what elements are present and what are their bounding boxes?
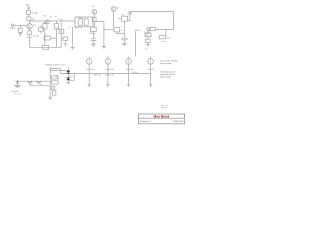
wire: [134, 32, 136, 57]
resistor R9: [91, 27, 97, 31]
wire: [92, 31, 94, 38]
wire: [128, 64, 130, 85]
switch pole B: [84, 19, 88, 25]
svg-text:SW1: SW1: [79, 17, 83, 20]
wire: [103, 21, 105, 29]
svg-text:C2 10u: C2 10u: [33, 34, 39, 37]
wire: [93, 21, 95, 27]
wire Q1 collector: [29, 21, 31, 24]
svg-text:LEVEL: LEVEL: [132, 71, 138, 74]
svg-text:Mini Block: Mini Block: [154, 115, 170, 119]
ground: [14, 85, 21, 87]
transistor Q2a: [45, 20, 49, 24]
wire top rail: [29, 20, 75, 22]
wire: [44, 21, 46, 24]
diode D1: [66, 71, 70, 74]
potentiometer VR1: [86, 59, 92, 65]
title block divider: [138, 117, 184, 119]
power terminal: [28, 7, 30, 9]
capacitor C7: [53, 91, 56, 95]
svg-text:10K: 10K: [167, 37, 171, 40]
wire: [19, 25, 21, 28]
svg-text:GAIN 1M: GAIN 1M: [126, 68, 134, 71]
resistor R6: [54, 24, 58, 29]
wire: [29, 35, 31, 48]
wire: [118, 18, 121, 20]
wire: [92, 40, 94, 44]
svg-text:1K: 1K: [121, 29, 124, 32]
wire input: [14, 24, 27, 26]
ground: [19, 34, 22, 36]
wire: [117, 21, 125, 38]
ground: [146, 45, 150, 47]
wire: [44, 29, 46, 45]
wire: [30, 85, 50, 87]
ground: [91, 44, 96, 46]
svg-text:R11: R11: [122, 14, 125, 17]
ground: [87, 85, 91, 87]
diode D2: [66, 78, 70, 81]
resistor R1: [27, 10, 31, 14]
wire: [61, 38, 63, 40]
resistor R2: [27, 17, 31, 21]
ground: [149, 85, 153, 87]
wire lower rail: [30, 46, 62, 48]
ground: [67, 82, 71, 84]
svg-text:R2: R2: [32, 18, 34, 21]
wire: [60, 21, 62, 47]
transistor Q3: [111, 7, 116, 12]
wire: [28, 9, 30, 10]
resistor R4: [28, 31, 32, 35]
wire: [49, 67, 51, 97]
svg-text:+: +: [125, 9, 127, 12]
wire: [64, 40, 66, 44]
resistor R3: [18, 28, 22, 32]
svg-text:to amp: to amp: [161, 40, 166, 43]
capacitor C5: [121, 38, 127, 40]
wire: [103, 30, 105, 47]
switch pins: [69, 27, 81, 29]
svg-text:+9V: +9V: [26, 4, 31, 7]
svg-text:C2: C2: [45, 33, 47, 36]
svg-text:+: +: [13, 79, 15, 82]
resistor R5: [43, 24, 47, 29]
capacitor C2: [44, 36, 50, 40]
resistor R10: [114, 28, 120, 32]
wire bottom rail: [60, 73, 150, 75]
svg-text:47K: 47K: [145, 48, 149, 51]
wire stub: [50, 69, 68, 71]
svg-text:unless noted: unless noted: [160, 76, 171, 79]
wire: [28, 15, 30, 18]
svg-text:R9 8K2: R9 8K2: [89, 32, 95, 35]
ground: [106, 85, 110, 87]
svg-text:INPUT: INPUT: [10, 27, 17, 30]
resistor R13: [51, 81, 58, 84]
wire top right: [130, 12, 174, 30]
wire: [165, 29, 167, 35]
svg-text:C3: C3: [57, 27, 59, 30]
potentiometer VR4: [148, 59, 154, 65]
svg-text:VOL 100K: VOL 100K: [86, 68, 95, 71]
svg-text:POWER SUPPLY UNIT: POWER SUPPLY UNIT: [45, 63, 66, 66]
wire: [19, 33, 21, 34]
ground: [48, 97, 52, 99]
svg-text:R5: R5: [44, 15, 46, 18]
ground: [102, 47, 106, 49]
wire: [93, 14, 95, 17]
svg-text:Q3: Q3: [116, 6, 118, 9]
svg-text:JD 2004: JD 2004: [161, 106, 167, 109]
switch SW3: [36, 81, 41, 83]
wire: [150, 64, 152, 85]
svg-text:R1 10K: R1 10K: [32, 11, 39, 14]
svg-text:Revision 1.0: Revision 1.0: [140, 120, 152, 123]
wire: [16, 84, 18, 86]
wire: [147, 30, 149, 33]
wire rail mid: [93, 20, 104, 22]
wire stub: [50, 69, 60, 74]
wire: [88, 64, 90, 85]
wire: [56, 21, 58, 24]
svg-text:Q2: Q2: [92, 5, 94, 8]
LED LD1: [51, 86, 54, 89]
svg-text:Q1: Q1: [33, 23, 36, 26]
wire: [44, 37, 56, 39]
resistor R7: [43, 45, 49, 49]
wire: [128, 14, 130, 21]
ground: [71, 48, 75, 50]
wire: [104, 29, 114, 31]
capacitor C3: [59, 29, 64, 33]
svg-text:100K LOG: 100K LOG: [105, 74, 114, 77]
wire: [113, 11, 115, 27]
wire: [147, 37, 149, 40]
svg-text:03/04/2004: 03/04/2004: [173, 120, 184, 123]
capacitor C4: [91, 39, 97, 41]
switch SW1 outer: [75, 17, 93, 27]
transistor Q2: [92, 9, 97, 14]
resistor R12: [51, 76, 58, 79]
wire: [107, 64, 109, 85]
wire: [72, 27, 74, 48]
output jack J2: [150, 28, 155, 31]
svg-text:C1 43n: C1 43n: [57, 18, 63, 21]
resistor R11: [121, 16, 127, 21]
ground: [64, 44, 68, 46]
title block frame: [138, 114, 184, 124]
svg-text:Q2: Q2: [50, 16, 52, 19]
wire: [40, 25, 42, 33]
capacitor C8: [39, 28, 44, 32]
wire: [123, 40, 125, 44]
transistor Q1: [27, 24, 32, 29]
wire Q1 emitter: [29, 29, 31, 31]
svg-text:50K LIN: 50K LIN: [94, 74, 101, 77]
ground: [127, 85, 131, 87]
svg-text:Poly cap only: Poly cap only: [160, 62, 171, 65]
wire: [147, 42, 149, 44]
resistor R8: [92, 18, 96, 22]
input jack J1: [11, 24, 14, 27]
wire battery feed: [17, 80, 50, 82]
svg-text:9V BATT: 9V BATT: [12, 90, 20, 93]
resistor R14: [159, 36, 165, 39]
resistor R15: [145, 33, 151, 36]
svg-text:FEED A: FEED A: [134, 29, 141, 32]
wire: [56, 29, 58, 47]
wire diode loop: [68, 67, 74, 83]
capacitor C6 polarized: [128, 12, 132, 14]
switch pole A: [79, 19, 83, 25]
resistor R16: [146, 39, 151, 42]
potentiometer VR2: [105, 59, 111, 65]
capacitor C9: [63, 37, 67, 40]
svg-text:TONE 50K: TONE 50K: [105, 68, 114, 71]
svg-text:D2: D2: [56, 76, 58, 79]
potentiometer VR3: [126, 59, 132, 65]
svg-text:R6: R6: [54, 15, 56, 18]
ground: [122, 43, 127, 45]
switch SW2: [28, 81, 33, 83]
